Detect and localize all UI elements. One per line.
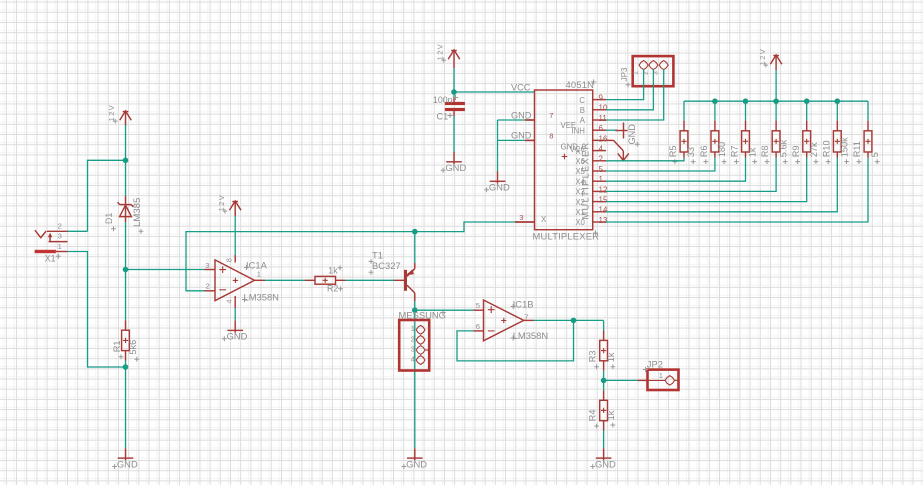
wire - IC1A +input from divider [126, 269, 216, 271]
svg-text:8: 8 [225, 258, 234, 262]
svg-text:5k6: 5k6 [128, 340, 138, 355]
svg-text:LM385: LM385 [132, 198, 143, 227]
svg-text:C1: C1 [437, 111, 449, 121]
svg-text:R7: R7 [730, 145, 740, 157]
svg-text:LM358N: LM358N [513, 330, 548, 341]
ground GND (left rail bottom) [112, 448, 138, 469]
resistor R5 33 [668, 101, 696, 164]
svg-text:3: 3 [411, 344, 415, 353]
node junction - bus tap R8 [773, 98, 779, 104]
svg-text:3: 3 [58, 232, 62, 241]
svg-text:JP3: JP3 [620, 67, 629, 81]
connector X1 (power jack) [35, 222, 68, 264]
svg-text:1k: 1k [606, 352, 616, 362]
op-amp IC1A LM358N [205, 255, 279, 308]
svg-text:R6: R6 [699, 145, 709, 157]
multiplexer IC 4051N (MULTIPLEXER) [515, 79, 614, 242]
node junction - bus tap R10 [835, 98, 841, 104]
svg-text:1: 1 [257, 270, 261, 279]
svg-text:14: 14 [599, 206, 608, 215]
svg-text:9: 9 [599, 94, 604, 103]
svg-text:GND: GND [117, 458, 138, 469]
wire - R8 to mux X input (pin 12) [606, 158, 776, 192]
svg-text:GND: GND [227, 331, 248, 342]
resistor R10 150k [821, 101, 849, 164]
svg-text:180: 180 [717, 142, 727, 157]
ground GND (multiplexer supply) [484, 172, 510, 193]
svg-text:MULTIPLEXER: MULTIPLEXER [533, 231, 600, 242]
resistor R1 5k6 [112, 320, 139, 361]
svg-text:T1: T1 [372, 250, 383, 261]
svg-text:R4: R4 [587, 410, 597, 422]
op-amp IC1B LM358N [476, 298, 548, 341]
svg-text:VCC: VCC [570, 145, 587, 154]
svg-text:1: 1 [659, 371, 663, 380]
svg-text:R11: R11 [852, 141, 862, 157]
node junction - VCC node [451, 89, 457, 95]
wire - IC1A output to R2 [255, 279, 305, 281]
capacitor C1 100n [433, 95, 465, 121]
svg-text:MESSUNG: MESSUNG [399, 309, 446, 320]
resistor R8 5.6k [760, 101, 788, 164]
svg-text:100n: 100n [433, 95, 453, 105]
ground GND (IC1A pin 4) [222, 308, 248, 342]
svg-text:1k: 1k [748, 147, 758, 157]
wire - feedback node step up to multiplexer X pin [415, 222, 535, 232]
svg-text:3: 3 [519, 213, 523, 222]
svg-text:X3: X3 [575, 188, 585, 197]
wire - X1 pin 1 to 0V node [68, 252, 126, 368]
svg-text:X0: X0 [575, 218, 585, 227]
svg-text:JP2: JP2 [647, 358, 663, 369]
svg-text:2: 2 [58, 222, 62, 231]
svg-text:13: 13 [599, 216, 608, 225]
power +12V supply symbol (IC1A) [217, 194, 241, 216]
wire - IC1A -input feedback from emitter node [186, 232, 415, 291]
wire - X1 pin 2 stub [68, 230, 88, 232]
svg-text:C: C [579, 96, 585, 105]
wire - IC1B -input feedback loop [457, 320, 574, 361]
wire - branch to X1 pin 2 [88, 160, 126, 231]
node junction - bus tap R6 [712, 98, 718, 104]
svg-text:11: 11 [599, 114, 608, 123]
svg-text:33: 33 [686, 147, 696, 157]
wire - R4 down to GND [603, 431, 605, 449]
svg-text:GND: GND [489, 182, 510, 193]
svg-text:D1: D1 [104, 213, 114, 224]
wire - JP3 pin 1 to mux C [606, 69, 644, 99]
ground GND (C1) [441, 152, 467, 173]
resistor R4 1k [587, 390, 615, 430]
svg-text:X2: X2 [575, 198, 585, 207]
wire - R2 to T1 base [346, 279, 405, 281]
svg-text:IC1A: IC1A [246, 259, 268, 270]
svg-text:R2: R2 [327, 284, 338, 294]
svg-text:IC1B: IC1B [513, 298, 534, 309]
svg-text:15: 15 [599, 196, 608, 205]
wire - 12V to IC1A pin 8 [234, 216, 236, 255]
svg-text:5: 5 [870, 152, 880, 157]
node junction - emitter/feedback/mux-X node [412, 229, 418, 235]
node junction - bus tap R9 [804, 98, 810, 104]
connector JP2 (1-pin) [643, 358, 679, 390]
resistor R7 1k [730, 101, 758, 164]
svg-text:6: 6 [599, 124, 604, 133]
wire - 12V to bank bus [775, 70, 777, 101]
svg-text:X5: X5 [575, 167, 585, 176]
power +12V supply symbol (resistor bank) [758, 48, 782, 70]
svg-text:12: 12 [599, 185, 608, 194]
svg-text:BC327: BC327 [372, 260, 401, 271]
resistor R11 5 [852, 101, 880, 164]
connector MESSUNG (4-pin header) [399, 309, 446, 370]
node junction - bus tap R7 [743, 98, 749, 104]
svg-text:R8: R8 [760, 145, 770, 157]
svg-text:1k: 1k [606, 410, 616, 420]
wire - junction down to R4 [603, 380, 605, 390]
transistor T1 BC327 (PNP) [369, 250, 415, 302]
wire - R1 down to GND [125, 361, 127, 449]
svg-text:27k: 27k [809, 142, 819, 157]
wire - R7 to mux X input (pin 1) [606, 158, 746, 182]
node junction - IC1B output/feedback [571, 318, 577, 324]
wire - 12V down to VCC node [453, 68, 455, 97]
wire - node to IC1B +input [415, 309, 484, 311]
wire - GND net vertical [497, 120, 499, 172]
svg-text:R9: R9 [791, 145, 801, 157]
svg-text:GND: GND [511, 110, 532, 120]
svg-text:2: 2 [411, 334, 415, 343]
wire - output node down to R3 [603, 320, 605, 330]
wire - resistor bank supply bus [684, 100, 868, 102]
svg-text:GND: GND [406, 458, 427, 469]
resistor R3 1k [587, 331, 615, 371]
wire - T1 collector down to MESSUNG [414, 301, 416, 448]
svg-text:GND: GND [511, 131, 532, 141]
svg-text:VCC: VCC [511, 82, 531, 92]
ground GND (below MESSUNG) [402, 448, 428, 469]
svg-text:5: 5 [599, 165, 604, 174]
ground arrow (pin 16 net) [614, 140, 629, 160]
wire - 12V rail down to D1 [125, 125, 127, 196]
wire - R3 to junction [603, 371, 605, 381]
svg-text:INH: INH [571, 126, 584, 135]
wire - D1 to R1 [125, 222, 127, 320]
svg-text:1: 1 [599, 175, 604, 184]
resistor R2 1k [305, 265, 346, 293]
resistor R6 180 [699, 101, 727, 164]
connector JP3 (3-pin header) [620, 56, 674, 87]
svg-text:GND: GND [595, 458, 616, 469]
svg-text:4: 4 [225, 299, 234, 303]
svg-text:LM358N: LM358N [244, 291, 279, 302]
svg-text:3: 3 [205, 261, 209, 270]
svg-text:6: 6 [476, 322, 480, 331]
node junction - rail to X1 pin2 branch [123, 158, 129, 164]
node junction - wire to IC1A noninverting input [123, 267, 129, 273]
svg-text:10: 10 [599, 104, 608, 113]
node junction - R3/R4/JP2 [601, 378, 607, 384]
wire - R11 to mux X input (pin 13) [606, 158, 868, 223]
svg-text:R3: R3 [587, 350, 597, 362]
svg-text:B: B [580, 106, 585, 115]
svg-text:A: A [580, 116, 586, 125]
svg-text:4: 4 [411, 355, 415, 364]
svg-text:150k: 150k [840, 137, 850, 157]
svg-text:X1: X1 [45, 254, 56, 264]
node junction - collector to IC1B+ branch [412, 307, 418, 313]
svg-text:2: 2 [599, 155, 604, 164]
wire - T1 emitter to feedback node [414, 232, 416, 263]
svg-text:4051N: 4051N [566, 79, 595, 90]
svg-text:R5: R5 [668, 145, 678, 157]
ground GND (INH pin, bar style rotated) [606, 123, 640, 147]
svg-text:1: 1 [411, 324, 415, 333]
svg-text:5: 5 [476, 301, 480, 310]
wire - R9 to mux X input (pin 15) [606, 158, 807, 202]
node junction - X1 pin1 return [123, 364, 129, 370]
wire - GND net to multiplexer GND pin 8 [498, 131, 535, 141]
svg-text:4: 4 [599, 145, 604, 154]
svg-text:16: 16 [599, 134, 608, 143]
svg-text:GND: GND [627, 124, 637, 145]
svg-text:1: 1 [58, 242, 62, 251]
wire - junction to JP2 [604, 379, 648, 381]
power +12V supply symbol (C1/VCC) [436, 43, 460, 68]
svg-text:X6: X6 [575, 157, 585, 166]
resistor R9 27k [791, 101, 819, 164]
power +12V supply symbol (left rail) [107, 104, 131, 126]
svg-text:R10: R10 [821, 140, 831, 157]
ground GND (below R4) [590, 448, 616, 469]
wire - JP3 pin 3 to mux A [606, 69, 664, 120]
wire - JP3 pin 2 to mux B [606, 69, 653, 110]
svg-text:X: X [541, 215, 547, 224]
svg-text:1k: 1k [328, 265, 338, 275]
wire - GND net to multiplexer VEE pin 7 [498, 110, 535, 120]
wire - C1 down to GND [453, 116, 455, 152]
wire - R5 to mux X input (pin 2) [606, 158, 684, 161]
svg-text:5.6k: 5.6k [778, 139, 788, 157]
wire - IC1B output [524, 319, 604, 321]
svg-text:7: 7 [549, 111, 553, 120]
diode D1 LM385 (zener) [104, 196, 143, 234]
svg-text:1: 1 [633, 71, 640, 75]
svg-text:X1: X1 [575, 208, 585, 217]
svg-text:R1: R1 [112, 341, 122, 353]
svg-text:8: 8 [549, 132, 553, 141]
svg-text:X4: X4 [575, 177, 585, 186]
svg-text:2: 2 [206, 282, 210, 291]
wire - R10 to mux X input (pin 14) [606, 158, 837, 212]
svg-text:GND: GND [445, 162, 466, 173]
wire - R6 to mux X input (pin 5) [606, 158, 715, 172]
wire - VCC node to multiplexer VCC [454, 82, 535, 92]
